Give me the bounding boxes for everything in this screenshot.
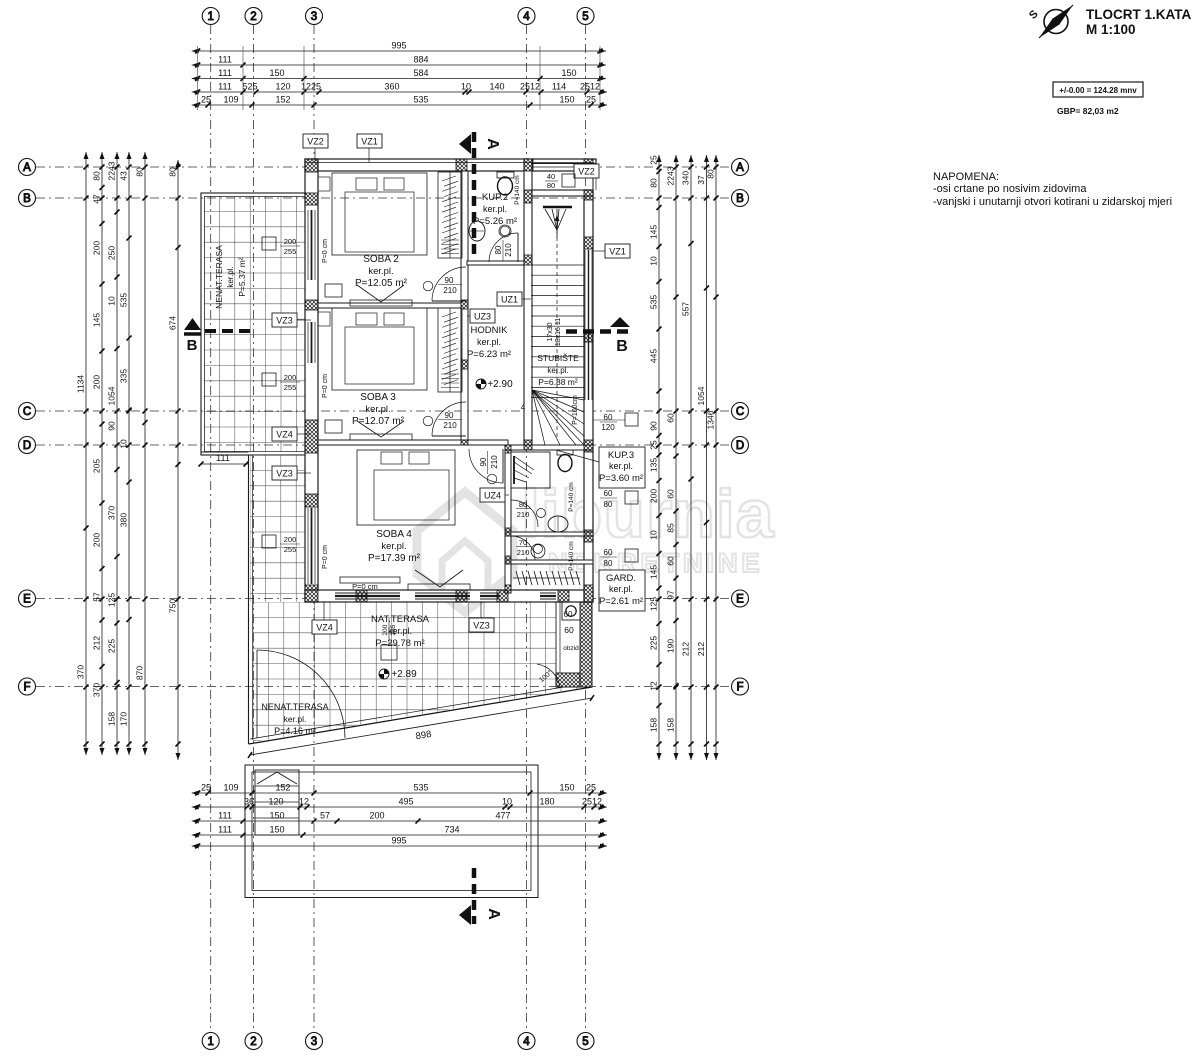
svg-text:80: 80 <box>706 169 716 179</box>
svg-text:VZ4: VZ4 <box>316 623 333 633</box>
svg-text:120: 120 <box>601 423 615 432</box>
svg-text:1: 1 <box>207 1036 213 1048</box>
svg-text:212: 212 <box>696 642 706 656</box>
level box <box>1053 82 1143 97</box>
bed soba3 <box>318 308 427 390</box>
svg-text:D: D <box>736 440 744 452</box>
svg-text:80: 80 <box>135 167 145 177</box>
door wc <box>511 536 543 560</box>
outer wall bottom <box>305 590 593 602</box>
compass <box>1027 5 1073 38</box>
svg-text:ker.pl.: ker.pl. <box>226 266 235 287</box>
wc fixture <box>531 544 545 558</box>
svg-text:125: 125 <box>649 597 659 611</box>
wall wc/gard <box>505 560 593 564</box>
svg-text:200: 200 <box>284 373 297 382</box>
svg-text:A: A <box>736 162 744 174</box>
svg-text:F: F <box>23 682 30 694</box>
svg-text:B: B <box>736 193 744 205</box>
svg-text:525: 525 <box>242 82 257 92</box>
svg-text:111: 111 <box>218 825 232 835</box>
svg-text:250: 250 <box>107 246 117 260</box>
svg-text:90: 90 <box>445 276 454 285</box>
svg-text:B: B <box>187 337 198 354</box>
big terrace door arc <box>257 650 345 738</box>
svg-text:884: 884 <box>413 55 428 65</box>
svg-text:150: 150 <box>269 825 284 835</box>
svg-text:25: 25 <box>586 783 596 793</box>
svg-text:3: 3 <box>311 1036 317 1048</box>
tag VZ3 natterasa <box>480 602 482 618</box>
bed soba4 <box>357 450 455 525</box>
level mark +2.90 <box>476 379 513 390</box>
svg-text:10: 10 <box>461 82 471 92</box>
svg-text:NAT.TERASA: NAT.TERASA <box>371 614 430 625</box>
small 40/80 square <box>545 172 575 190</box>
svg-text:114: 114 <box>552 82 566 92</box>
svg-text:477: 477 <box>495 811 510 821</box>
svg-text:205: 205 <box>92 459 102 473</box>
svg-text:ker.pl.: ker.pl. <box>547 366 568 375</box>
svg-text:C: C <box>736 406 744 418</box>
wall soba3/soba4 <box>318 440 508 445</box>
svg-text:340: 340 <box>681 171 691 185</box>
dim 111 under terrace step <box>199 453 249 467</box>
tag VZ1 right <box>593 250 605 252</box>
terrace lower-left strip tiles <box>201 452 311 744</box>
vertical axis lines 1-5 <box>211 25 586 1032</box>
svg-text:85: 85 <box>666 523 676 533</box>
svg-text:57: 57 <box>92 592 102 602</box>
svg-text:43: 43 <box>119 171 129 181</box>
svg-text:12: 12 <box>299 797 309 807</box>
svg-text:60: 60 <box>666 556 676 566</box>
svg-text:KUP.3: KUP.3 <box>608 450 634 461</box>
svg-text:210: 210 <box>490 455 499 469</box>
svg-text:VZ2: VZ2 <box>307 137 324 147</box>
svg-text:2512: 2512 <box>580 82 600 92</box>
svg-text:40: 40 <box>547 172 555 181</box>
svg-text:150: 150 <box>269 68 284 78</box>
svg-text:111: 111 <box>218 68 232 78</box>
svg-text:210: 210 <box>443 421 457 430</box>
svg-text:-osi crtane po nosivim zidovim: -osi crtane po nosivim zidovima <box>933 183 1087 195</box>
svg-text:VZ3: VZ3 <box>276 469 293 479</box>
svg-text:25: 25 <box>201 95 211 105</box>
svg-text:995: 995 <box>391 41 406 51</box>
svg-text:VZ2: VZ2 <box>578 167 595 177</box>
svg-text:SOBA 3: SOBA 3 <box>360 392 396 403</box>
svg-text:200: 200 <box>92 375 102 389</box>
svg-text:370: 370 <box>92 683 102 697</box>
svg-text:P=12.05 m²: P=12.05 m² <box>355 278 408 289</box>
tag VZ4 natterasa <box>323 602 325 620</box>
svg-text:210: 210 <box>517 548 530 557</box>
svg-text:445: 445 <box>649 349 659 363</box>
dresser soba2 <box>325 284 412 306</box>
lower storey outline <box>245 765 538 898</box>
svg-text:170: 170 <box>119 712 129 726</box>
svg-text:584: 584 <box>413 68 428 78</box>
svg-text:E: E <box>23 594 31 606</box>
right dimension chains <box>649 155 719 760</box>
svg-text:225: 225 <box>649 636 659 650</box>
svg-text:obzid: obzid <box>563 645 579 652</box>
svg-text:370: 370 <box>76 665 86 679</box>
svg-text:60: 60 <box>564 610 573 619</box>
svg-text:380: 380 <box>119 513 129 527</box>
svg-text:2: 2 <box>250 11 256 23</box>
svg-text:200: 200 <box>284 237 297 246</box>
dresser soba4 <box>340 570 470 590</box>
svg-text:P=29.78 m²: P=29.78 m² <box>375 638 424 649</box>
svg-text:A: A <box>23 162 31 174</box>
svg-text:70: 70 <box>519 538 527 547</box>
outer wall left <box>305 159 318 602</box>
svg-text:ker.pl.: ker.pl. <box>368 266 393 277</box>
tag VZ2 top <box>314 148 316 162</box>
svg-text:158: 158 <box>666 718 676 732</box>
svg-text:255: 255 <box>284 247 297 256</box>
svg-text:200: 200 <box>649 489 659 503</box>
svg-text:150: 150 <box>561 68 576 78</box>
section B left <box>184 318 250 354</box>
svg-text:4: 4 <box>523 11 530 23</box>
svg-text:P=6.88 m²: P=6.88 m² <box>538 377 578 387</box>
svg-text:120: 120 <box>268 797 283 807</box>
window in stair-block right wall <box>585 250 592 400</box>
watermark logo house <box>417 492 513 612</box>
svg-text:90: 90 <box>445 411 454 420</box>
svg-text:111: 111 <box>216 453 230 463</box>
svg-text:25: 25 <box>649 440 659 450</box>
svg-text:P=12.07 m²: P=12.07 m² <box>352 416 405 427</box>
axis bubbles left <box>19 159 36 696</box>
svg-text:STUBIŠTE: STUBIŠTE <box>537 353 579 363</box>
terrace right parapet hatched <box>556 602 592 687</box>
svg-text:25: 25 <box>649 155 659 165</box>
svg-text:P=0 cm: P=0 cm <box>352 582 378 591</box>
svg-text:GARD.: GARD. <box>606 573 636 584</box>
svg-text:17x30: 17x30 <box>547 322 554 341</box>
door soba2 <box>423 267 466 301</box>
svg-text:360: 360 <box>384 82 399 92</box>
svg-text:KUP.2: KUP.2 <box>482 192 508 203</box>
outer wall top <box>305 159 596 171</box>
gard wardrobe hatch <box>513 571 580 585</box>
svg-text:145: 145 <box>92 313 102 327</box>
svg-text:12: 12 <box>649 681 659 691</box>
left dimension chains <box>76 152 181 760</box>
tag VZ3 terrace <box>297 319 311 321</box>
svg-text:2243: 2243 <box>666 166 676 185</box>
svg-text:80: 80 <box>604 500 613 509</box>
svg-text:P=2.61 m²: P=2.61 m² <box>599 596 643 607</box>
horizontal axis lines A-F <box>36 167 731 687</box>
svg-text:60: 60 <box>604 413 613 422</box>
svg-text:SOBA 2: SOBA 2 <box>363 254 399 265</box>
svg-text:158: 158 <box>107 712 117 726</box>
dim 60/80 square a <box>600 489 638 509</box>
svg-text:VZ1: VZ1 <box>609 247 626 257</box>
door kup2 <box>489 226 518 262</box>
svg-text:225: 225 <box>107 639 117 653</box>
tag VZ4 terrace <box>297 433 311 435</box>
svg-text:80: 80 <box>494 245 503 254</box>
svg-text:1: 1 <box>207 11 213 23</box>
svg-text:P=140 cm: P=140 cm <box>568 541 575 570</box>
svg-text:152: 152 <box>275 783 290 793</box>
svg-text:870: 870 <box>135 666 145 680</box>
svg-text:VZ3: VZ3 <box>276 316 293 326</box>
wall kup2 right / stair left <box>524 159 532 445</box>
svg-text:535: 535 <box>649 295 659 309</box>
svg-text:109: 109 <box>223 95 238 105</box>
dim 60/80 square b <box>600 548 638 568</box>
bed soba2 <box>318 173 427 255</box>
svg-text:ker.pl.: ker.pl. <box>284 714 307 724</box>
svg-text:557: 557 <box>681 302 691 316</box>
kup3 sink <box>548 516 568 532</box>
external stair box <box>255 770 299 835</box>
svg-text:674: 674 <box>168 316 178 330</box>
svg-text:60: 60 <box>604 548 613 557</box>
svg-text:4: 4 <box>523 1036 530 1048</box>
svg-text:212: 212 <box>92 636 102 650</box>
axis bubbles top <box>202 8 594 25</box>
svg-text:125: 125 <box>107 593 117 607</box>
svg-text:152: 152 <box>275 95 290 105</box>
kup2 toilet <box>497 172 514 195</box>
svg-text:60: 60 <box>604 489 613 498</box>
landing fan symbol <box>543 207 572 238</box>
stair block top wall <box>531 190 593 196</box>
svg-text:535: 535 <box>413 95 428 105</box>
terrace NAT.TERASA tile grid <box>253 602 588 745</box>
svg-text:E: E <box>736 594 744 606</box>
terrace dim 200/255 c <box>262 535 300 554</box>
svg-text:P=0 cm: P=0 cm <box>322 545 329 569</box>
svg-text:80: 80 <box>547 181 555 190</box>
svg-text:2512: 2512 <box>520 82 540 92</box>
tag UZ3 <box>467 315 470 317</box>
svg-text:60: 60 <box>666 413 676 423</box>
svg-text:GBP= 82,03 m2: GBP= 82,03 m2 <box>1057 106 1119 116</box>
dim 60/120 square <box>593 413 638 432</box>
svg-text:90: 90 <box>479 457 488 466</box>
kup3 toilet <box>557 450 573 472</box>
deck parapet top right <box>532 164 596 191</box>
terrace slanted edge <box>249 683 593 744</box>
windows in left wall <box>308 210 315 584</box>
windows in bottom wall <box>335 593 556 599</box>
svg-text:VZ1: VZ1 <box>361 137 378 147</box>
bottom dimension chains <box>192 783 607 849</box>
terrace dim 200/255 a <box>262 237 300 256</box>
svg-text:10: 10 <box>107 296 117 306</box>
svg-text:80: 80 <box>519 500 527 509</box>
svg-text:2512: 2512 <box>582 797 602 807</box>
tag UZ1 <box>522 298 531 300</box>
svg-text:210: 210 <box>504 243 513 257</box>
svg-text:370: 370 <box>107 506 117 520</box>
svg-text:P=4.16 m²: P=4.16 m² <box>274 726 316 736</box>
svg-text:5: 5 <box>582 1036 588 1048</box>
svg-text:80: 80 <box>168 167 178 177</box>
section A top <box>459 132 501 258</box>
svg-text:NAPOMENA:: NAPOMENA: <box>933 171 999 183</box>
svg-text:80: 80 <box>92 171 102 181</box>
svg-text:B: B <box>23 193 31 205</box>
svg-text:10: 10 <box>649 256 659 266</box>
svg-text:150: 150 <box>559 783 574 793</box>
svg-text:255: 255 <box>284 545 297 554</box>
svg-text:VZ4: VZ4 <box>276 430 293 440</box>
svg-text:1346: 1346 <box>706 410 716 429</box>
label KUP.3 boxed <box>556 447 645 488</box>
svg-text:212: 212 <box>681 642 691 656</box>
svg-text:734: 734 <box>444 825 459 835</box>
top dimension chains <box>192 41 607 111</box>
svg-text:P=140 cm: P=140 cm <box>568 482 575 511</box>
svg-text:1054: 1054 <box>696 386 706 405</box>
door soba3 <box>423 402 466 436</box>
wall kup3 top (axis D) <box>505 445 593 450</box>
svg-text:111: 111 <box>218 55 232 65</box>
svg-text:B: B <box>616 338 628 355</box>
svg-text:F: F <box>736 682 743 694</box>
svg-text:111: 111 <box>218 811 232 821</box>
tag UZ4 <box>505 494 509 496</box>
svg-text:P=100cm: P=100cm <box>572 395 579 425</box>
svg-text:255: 255 <box>390 624 397 635</box>
svg-text:P=140 cm: P=140 cm <box>514 175 521 204</box>
svg-text:37: 37 <box>696 175 706 185</box>
tag VZ1 top <box>368 148 370 162</box>
svg-text:P=17.39 m²: P=17.39 m² <box>368 553 421 564</box>
svg-text:495: 495 <box>398 797 413 807</box>
door soba4 <box>469 449 503 484</box>
svg-text:60: 60 <box>564 625 574 635</box>
svg-text:+/-0.00 = 124.28 mnv: +/-0.00 = 124.28 mnv <box>1059 86 1137 95</box>
svg-text:ker.pl.: ker.pl. <box>381 541 406 552</box>
svg-text:150: 150 <box>559 95 574 105</box>
svg-text:UZ3: UZ3 <box>474 312 491 322</box>
wall soba right column <box>461 171 468 445</box>
dim 898 along slant <box>248 695 594 758</box>
svg-text:NENAT.TERASA: NENAT.TERASA <box>214 245 224 309</box>
svg-text:VZ3: VZ3 <box>473 621 490 631</box>
top wall middle line <box>307 162 594 164</box>
svg-text:-vanjski i unutarnji otvori ko: -vanjski i unutarnji otvori kotirani u z… <box>933 196 1172 208</box>
svg-text:535: 535 <box>413 783 428 793</box>
svg-text:UZ4: UZ4 <box>484 491 501 501</box>
wall soba4 right <box>505 445 511 593</box>
axis bubbles right <box>732 159 749 696</box>
stairs treads <box>531 265 584 398</box>
svg-text:2243: 2243 <box>107 161 117 180</box>
svg-text:A: A <box>484 138 501 150</box>
kup2 sink <box>469 221 511 241</box>
svg-text:995: 995 <box>391 836 406 846</box>
section A bottom <box>459 868 502 925</box>
svg-text:180: 180 <box>539 797 554 807</box>
svg-text:57: 57 <box>320 811 330 821</box>
svg-text:145: 145 <box>649 565 659 579</box>
svg-text:5: 5 <box>582 11 588 23</box>
svg-text:200: 200 <box>369 811 384 821</box>
stairs walk line <box>555 215 560 437</box>
svg-text:200: 200 <box>284 535 297 544</box>
svg-text:25: 25 <box>201 783 211 793</box>
svg-text:200: 200 <box>92 241 102 255</box>
svg-text:80: 80 <box>649 178 659 188</box>
svg-text:UZ1: UZ1 <box>501 295 518 305</box>
tag VZ2 right <box>574 164 599 178</box>
svg-text:P=0 cm: P=0 cm <box>322 374 329 398</box>
svg-text:A: A <box>485 908 502 920</box>
svg-text:255: 255 <box>284 383 297 392</box>
svg-text:10: 10 <box>119 439 129 449</box>
axis bubbles bottom <box>202 1033 594 1050</box>
wall kup3 bottom <box>505 532 593 536</box>
svg-text:140: 140 <box>489 82 504 92</box>
svg-text:ker.pl.: ker.pl. <box>609 461 633 471</box>
svg-text:2: 2 <box>250 1036 256 1048</box>
terrace NENAT.TERASA tile grid <box>201 193 311 455</box>
svg-text:D: D <box>23 440 31 452</box>
wardrobe soba3 <box>438 308 462 392</box>
svg-text:210: 210 <box>517 510 530 519</box>
svg-text:60: 60 <box>666 489 676 499</box>
svg-text:150: 150 <box>269 811 284 821</box>
svg-text:120: 120 <box>275 82 290 92</box>
svg-text:4: 4 <box>521 403 526 412</box>
svg-text:HODNIK: HODNIK <box>471 325 509 336</box>
wall piers crosshatched <box>305 159 593 602</box>
svg-text:200: 200 <box>382 624 389 635</box>
svg-text:25: 25 <box>586 95 596 105</box>
svg-text:90: 90 <box>107 421 117 431</box>
stairs winders <box>532 390 584 445</box>
svg-text:335: 335 <box>119 369 129 383</box>
svg-text:97: 97 <box>666 590 676 600</box>
svg-text:NENAT.TERASA: NENAT.TERASA <box>261 702 328 712</box>
svg-text:158: 158 <box>649 718 659 732</box>
level mark +2.89 <box>379 669 417 680</box>
svg-text:90: 90 <box>649 421 659 431</box>
svg-text:3: 3 <box>311 11 317 23</box>
svg-text:750: 750 <box>168 599 178 613</box>
svg-text:210: 210 <box>443 286 457 295</box>
svg-text:145: 145 <box>649 225 659 239</box>
svg-text:ker.pl.: ker.pl. <box>483 204 507 214</box>
svg-text:535: 535 <box>119 293 129 307</box>
section B right <box>566 317 634 355</box>
door kup3 <box>511 500 546 527</box>
wall soba2/soba3 <box>318 303 461 308</box>
svg-text:P=5.37 m²: P=5.37 m² <box>237 257 247 297</box>
label GARD. boxed <box>599 570 645 611</box>
kup3 shower <box>511 452 550 488</box>
wardrobe soba2 <box>438 172 462 258</box>
svg-text:+2.90: +2.90 <box>487 379 513 390</box>
svg-text:135: 135 <box>649 458 659 472</box>
svg-text:ker.pl.: ker.pl. <box>477 337 501 347</box>
natterasa dim square <box>381 618 397 660</box>
svg-text:10: 10 <box>502 797 512 807</box>
svg-text:111: 111 <box>218 82 232 92</box>
